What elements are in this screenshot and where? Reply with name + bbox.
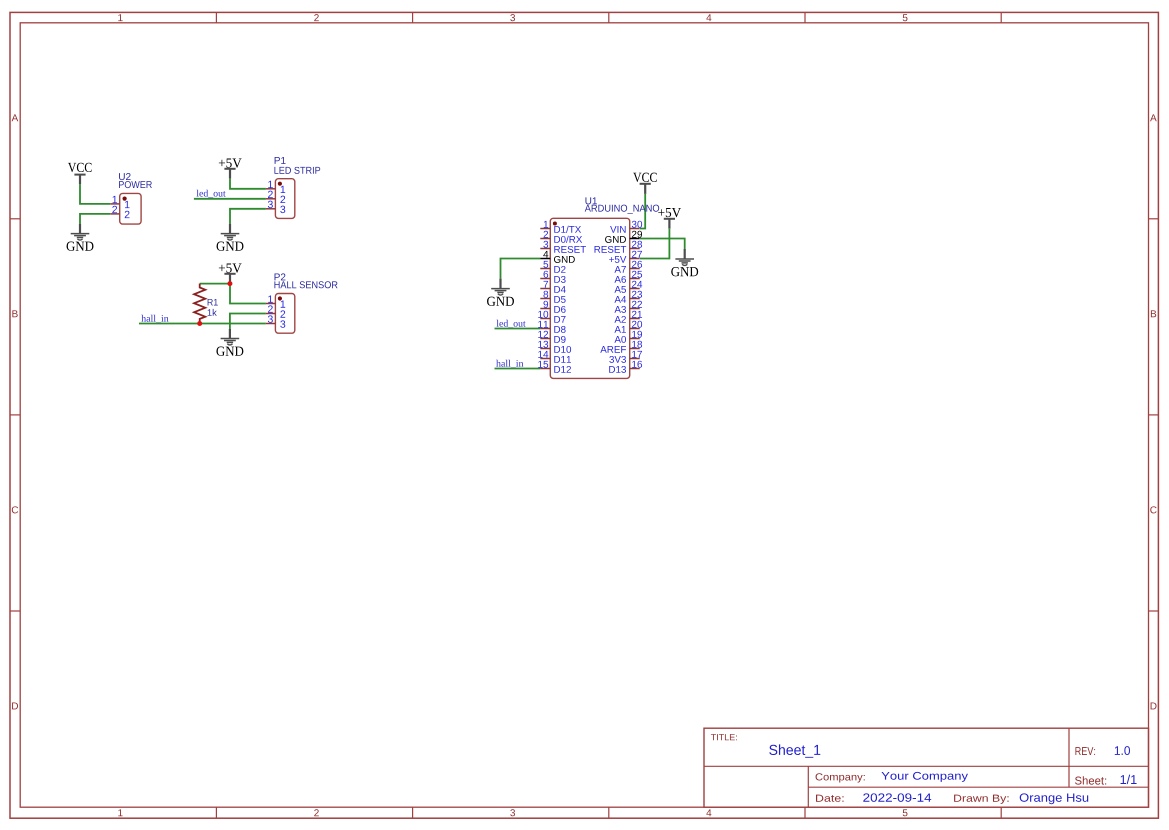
ruler letters left [12,114,19,709]
U1 pin 12 (D9) [538,331,565,343]
U1 pin 2 (D0/RX) [540,231,582,243]
wire VCC to U2 pin 1 [80,184,110,204]
power flag +5V (P1 net) [219,158,242,178]
wire U1 pin 4 to GND [501,259,541,279]
ruler letters right [1150,114,1157,709]
power flag +5V (U1 net) [658,208,681,229]
connector U2 body [120,193,141,224]
U1 pin 4 (GND) [540,251,575,263]
ruler numbers bottom [118,809,907,816]
wire VCC to U1 pin 30 [640,194,645,229]
P1 pin 3 [266,201,285,213]
U1 pin 7 (D4) [540,281,565,293]
wire U2 pin 2 to GND [80,214,110,224]
wire hall_in to P2 pin 3 [139,323,266,325]
U1 pin 9 (D6) [540,301,565,313]
wire +5V to P1 pin 1 [230,179,266,189]
connector P1 body [275,179,294,219]
connector P2 label [274,273,337,288]
P1 pin 1 [266,181,285,193]
title block Company [816,772,968,783]
net label hall_in (P2) [141,315,168,323]
wire +5V branch to R1 top [200,283,230,285]
IC U1 label [585,197,659,213]
U2 pin 1 [110,196,129,208]
ruler numbers top [118,14,907,21]
resistor R1 [194,284,205,324]
title block TITLE [711,734,737,740]
U1 pin 19 (A0) [614,331,642,343]
junction (R1 / hall_in) [197,321,202,326]
U1 pin 18 (AREF) [600,341,642,353]
junction (+5V / R1) [227,281,232,286]
ruler ticks bottom [216,807,1001,818]
net label hall_in (U1) [496,360,523,368]
connector P1 label [274,157,320,174]
wire led_out to P1 pin 2 [194,198,266,200]
title block Date [816,793,931,802]
P1 pin 2 [266,191,285,203]
wire P1 pin 3 to GND [230,209,266,224]
U1 pin 22 (A3) [614,301,642,313]
title block REV [1075,746,1130,755]
U1 pin 24 (A5) [614,281,642,293]
U2 pin 2 [110,206,129,218]
power flag +5V (P2 net) [219,263,242,283]
ground (U2 net) [67,224,94,251]
net label led_out (P1) [197,190,226,198]
title block Sheet number [1075,775,1137,785]
U1 pin 10 (D7) [538,311,565,323]
U1 pin 29 (GND) [605,231,642,243]
U1 pin 27 (+5V) [609,251,642,263]
ruler ticks left [10,219,20,611]
U1 pin 23 (A4) [614,291,642,303]
IC U1 body [550,218,629,378]
wire +5V to P2 pin 1 [230,284,266,304]
power flag VCC (U1 net) [633,173,657,194]
power flag VCC (U2 net) [68,163,92,185]
ground (P2 net) [216,329,243,356]
U1 pin 25 (A6) [614,271,642,283]
U1 pin 15 (D12) [538,361,571,373]
title block Drawn By [954,793,1088,804]
connector P2 body [275,294,294,334]
U1 pin 21 (A2) [614,311,642,323]
wire P2 pin 2 to GND [230,314,266,330]
wire +5V to U1 pin 27 [640,229,669,259]
wire hall_in to U1 pin 15 [495,368,541,370]
U1 pin 8 (D5) [540,291,565,303]
net label led_out (U1) [497,320,526,328]
title block frame [704,728,1149,807]
U1 pin 26 (A7) [614,261,642,273]
U1 pin 17 (3V3) [609,351,642,363]
P2 pin 2 [266,305,285,317]
P2 pin 3 [266,315,285,327]
R1 value labels [208,299,218,316]
U1 pin 14 (D11) [538,351,571,363]
ruler ticks right [1149,219,1159,611]
ground (U1 right net) [671,249,698,276]
U1 pin 30 (VIN) [610,221,642,233]
connector U2 label [119,173,152,188]
U1 pin 20 (A1) [614,321,642,333]
U1 pin 11 (D8) [538,321,565,333]
U1 pin 1 (D1/TX) [540,221,581,233]
title block sheet name [769,744,820,757]
ground (P1 net) [217,224,244,251]
U1 pin 28 (RESET) [595,241,643,253]
U1 pin 6 (D3) [540,271,565,283]
P2 pin 1 [266,295,285,307]
U1 pin 13 (D10) [538,341,571,353]
U1 pin 5 (D2) [540,261,565,273]
U1 pin 3 (RESET) [540,241,586,253]
ruler ticks top [216,12,1001,22]
ground (U1 left net) [487,279,514,306]
U1 pin 16 (D13) [609,361,642,373]
wire led_out to U1 pin 11 [495,328,541,330]
wire U1 pin 29 to GND [640,239,685,250]
